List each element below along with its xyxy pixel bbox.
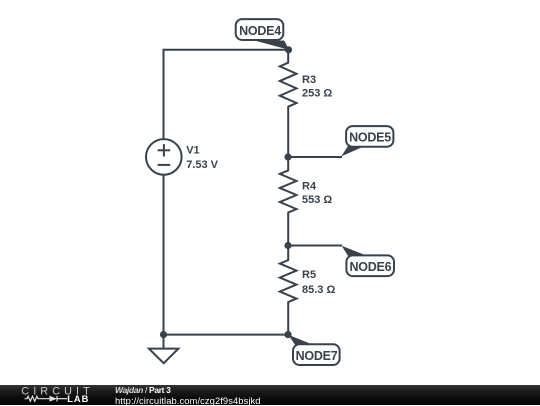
svg-text:NODE4: NODE4 xyxy=(239,24,281,38)
svg-text:R4: R4 xyxy=(302,181,317,193)
svg-text:553 Ω: 553 Ω xyxy=(302,194,332,206)
svg-text:NODE7: NODE7 xyxy=(296,349,338,363)
svg-text:NODE6: NODE6 xyxy=(349,260,391,274)
svg-text:V1: V1 xyxy=(186,145,199,157)
svg-text:NODE5: NODE5 xyxy=(349,130,391,144)
svg-text:R3: R3 xyxy=(302,74,316,86)
svg-text:R5: R5 xyxy=(302,269,316,281)
svg-text:85.3 Ω: 85.3 Ω xyxy=(302,284,335,296)
svg-text:253 Ω: 253 Ω xyxy=(302,88,332,100)
svg-text:LAB: LAB xyxy=(67,394,89,404)
svg-text:7.53 V: 7.53 V xyxy=(186,159,218,171)
